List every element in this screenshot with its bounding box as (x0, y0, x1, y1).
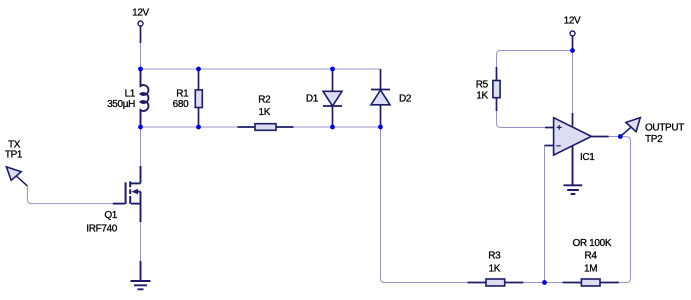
svg-text:R3: R3 (488, 251, 501, 262)
svg-text:OUTPUT: OUTPUT (645, 123, 684, 134)
svg-text:OR 100K: OR 100K (572, 238, 611, 249)
svg-text:D2: D2 (399, 94, 412, 105)
svg-text:TP1: TP1 (5, 149, 23, 160)
svg-text:L1: L1 (125, 89, 136, 100)
svg-text:D1: D1 (306, 94, 319, 105)
svg-text:350µH: 350µH (107, 99, 135, 110)
svg-text:R5: R5 (476, 80, 489, 91)
svg-text:12V: 12V (132, 8, 149, 19)
svg-text:IC1: IC1 (580, 152, 595, 163)
svg-text:TP2: TP2 (645, 134, 663, 145)
svg-text:1K: 1K (476, 91, 488, 102)
svg-text:1M: 1M (584, 263, 597, 274)
svg-text:R2: R2 (258, 95, 271, 106)
svg-text:1K: 1K (489, 263, 501, 274)
svg-text:R4: R4 (585, 251, 598, 262)
svg-text:R1: R1 (176, 89, 189, 100)
svg-text:12V: 12V (564, 16, 581, 27)
svg-text:680: 680 (173, 99, 189, 110)
svg-text:Q1: Q1 (104, 210, 117, 221)
svg-text:IRF740: IRF740 (86, 223, 117, 234)
svg-text:1K: 1K (259, 107, 271, 118)
